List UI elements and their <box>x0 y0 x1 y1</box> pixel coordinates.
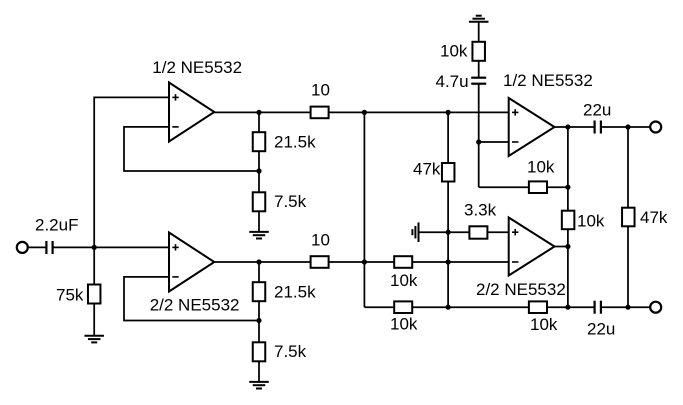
resistor 47k right output <box>622 208 635 227</box>
svg-text:10k: 10k <box>390 271 418 290</box>
svg-text:10k: 10k <box>530 315 558 334</box>
wire node B vertical x364 <box>363 112 365 307</box>
wire bottom summing line to 10k resistors <box>364 306 568 308</box>
svg-text:10k: 10k <box>527 158 555 177</box>
svg-text:1/2 NE5532: 1/2 NE5532 <box>503 71 593 90</box>
capacitor 22u bottom <box>595 301 601 314</box>
svg-text:7.5k: 7.5k <box>274 192 307 211</box>
svg-text:22u: 22u <box>583 101 611 120</box>
svg-text:2/2 NE5532: 2/2 NE5532 <box>476 280 566 299</box>
capacitor 2.2uF <box>46 241 52 254</box>
junction node C at 3.3k <box>446 230 451 235</box>
resistor 10k summing upper <box>394 256 412 268</box>
wire 22u to bottom output terminal <box>601 306 650 308</box>
output terminal bottom <box>650 302 661 313</box>
resistor 47k middle <box>442 163 455 182</box>
junction op1 output node <box>256 110 261 115</box>
svg-text:1/2 NE5532: 1/2 NE5532 <box>152 58 242 77</box>
svg-text:10: 10 <box>311 81 330 100</box>
junction node C mid <box>446 259 451 264</box>
svg-text:10k: 10k <box>390 315 418 334</box>
svg-text:4.7u: 4.7u <box>436 72 469 91</box>
svg-text:7.5k: 7.5k <box>274 342 307 361</box>
junction node C top <box>446 110 451 115</box>
junction op3 output node <box>565 124 570 129</box>
resistor 10k vertical between stages <box>562 211 575 230</box>
junction op4 output node <box>565 244 570 249</box>
junction op3 inverting node <box>476 139 481 144</box>
capacitor 22u top <box>595 121 601 134</box>
junction op3 feedback node <box>565 185 570 190</box>
svg-text:10k: 10k <box>440 41 468 60</box>
svg-text:2/2 NE5532: 2/2 NE5532 <box>150 295 240 314</box>
wire node A through R 10 to op3 noninverting input <box>259 111 509 113</box>
resistor 21.5k lower <box>253 282 266 301</box>
junction node B top <box>362 110 367 115</box>
svg-text:2.2uF: 2.2uF <box>35 215 78 234</box>
junction bottom line feedback column <box>565 305 570 310</box>
ground below 7.5k upper <box>249 232 269 239</box>
op-amp U1B 2/2 NE5532 <box>169 233 214 292</box>
wire input terminal to capacitor 2.2uF <box>29 246 47 248</box>
junction bottom output node at 47k <box>625 305 630 310</box>
wire feedback column x568 op3 output to bottom line <box>567 127 569 307</box>
wire 75k column input node to ground <box>93 247 95 335</box>
svg-text:21.5k: 21.5k <box>274 283 316 302</box>
svg-text:75k: 75k <box>56 286 84 305</box>
junction node C bottom <box>446 305 451 310</box>
wire op4 output to feedback column <box>555 246 568 248</box>
resistor 21.5k upper <box>253 132 266 151</box>
wire op1 output to node A <box>214 111 259 113</box>
svg-text:47k: 47k <box>640 208 668 227</box>
wire capacitor 2.2uF to op2 noninverting input <box>53 246 169 248</box>
input terminal <box>17 242 28 253</box>
wire op2 inverting input feedback loop <box>124 277 259 321</box>
ground below 75k <box>84 336 104 343</box>
op-amp U1A 1/2 NE5532 <box>169 83 214 142</box>
junction op2 output node <box>256 259 261 264</box>
wire 22u to top output terminal <box>601 126 650 128</box>
wire op2 output through R 10 and 10k to op4 inverting input <box>214 261 508 263</box>
svg-text:10: 10 <box>311 231 330 250</box>
op-amp U2B 2/2 NE5532 <box>509 218 555 276</box>
wire right 47k column between output nodes <box>627 127 629 307</box>
wire op2 divider column 21.5k/7.5k to ground <box>258 262 260 382</box>
junction input node <box>92 245 97 250</box>
junction op2 divider node <box>256 318 261 323</box>
svg-text:22u: 22u <box>587 319 615 338</box>
junction node B mid <box>362 259 367 264</box>
resistor 10k summing lower <box>394 301 412 313</box>
op-amp U2A 1/2 NE5532 <box>509 98 555 156</box>
resistor 10k to top ground <box>472 42 485 61</box>
wire op3 inverting input stub <box>479 141 509 143</box>
output terminal top <box>650 122 661 133</box>
capacitor 4.7u <box>471 78 486 84</box>
ground top inverted above 10k <box>469 16 489 22</box>
svg-text:47k: 47k <box>413 160 441 179</box>
wire op1 inverting input feedback loop <box>124 127 259 171</box>
wire op3 feedback through 10k <box>479 186 568 188</box>
resistor 10 lower <box>311 256 329 268</box>
wire op3 output to 22u <box>555 126 595 128</box>
wire op1 noninverting input stub <box>94 97 169 247</box>
wire top ground through 10k and 4.7u to op3 inverting node <box>478 22 480 78</box>
ground sideways at 3.3k <box>412 222 418 242</box>
resistor 3.3k <box>469 226 487 238</box>
resistor 10 upper <box>311 107 329 119</box>
svg-text:10k: 10k <box>577 212 605 231</box>
wire op1 divider column 21.5k/7.5k to ground <box>258 112 260 231</box>
resistor 75k <box>88 285 101 304</box>
resistor 10k op3 feedback <box>529 181 547 193</box>
junction top output node at 47k <box>625 124 630 129</box>
junction op1 divider node <box>256 168 261 173</box>
wire sideways ground to 3.3k to op4 noninverting input <box>419 231 509 233</box>
wire bottom line to 22u <box>568 306 595 308</box>
resistor 7.5k lower <box>253 342 266 361</box>
svg-text:21.5k: 21.5k <box>274 133 316 152</box>
wire node C vertical x448 through 47k <box>447 112 449 307</box>
resistor 10k bottom <box>529 301 547 313</box>
svg-text:3.3k: 3.3k <box>464 201 497 220</box>
resistor 7.5k upper <box>253 192 266 211</box>
wire 4.7u bottom plate down to inverting node crossing main wire <box>478 84 480 188</box>
ground below 7.5k lower <box>249 382 269 389</box>
